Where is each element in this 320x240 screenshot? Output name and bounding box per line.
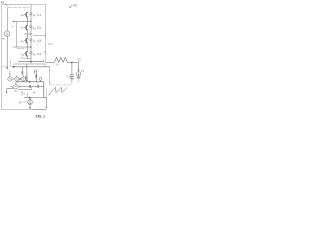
inner box 32 top edge xyxy=(9,6,29,8)
arrowhead on rail (current direction) xyxy=(6,67,8,69)
tiny label above capacitor pair xyxy=(34,68,38,70)
svg-text:4d: 4d xyxy=(33,27,37,31)
wire to ground xyxy=(78,76,80,77)
junction dot capacitor branch xyxy=(71,62,73,64)
cell row 1 : transistor Q1 xyxy=(24,12,28,22)
svg-text:4f: 4f xyxy=(33,40,36,44)
cell row 3 : source wire xyxy=(13,46,31,48)
resistor R (zigzag) xyxy=(54,57,67,62)
current source 34 (circle) xyxy=(4,31,9,36)
svg-text:4h: 4h xyxy=(33,53,37,57)
waveform reference dashed line xyxy=(50,84,71,86)
cell row 3 : mirror node circle xyxy=(30,39,33,42)
bus wire A y=61.7 xyxy=(18,61,44,63)
outer box 30 right edge xyxy=(45,5,47,63)
mirror circle M3 xyxy=(21,77,25,81)
label 30 (outer block reference) xyxy=(0,0,7,6)
waveform tap wire xyxy=(49,67,51,85)
wire M2 to M3 with junction dot xyxy=(19,78,21,80)
cell row 4 : mirror node circle xyxy=(30,52,33,55)
current source 38 (circle with arrow) xyxy=(28,100,33,105)
wire down to capacitor Cp xyxy=(71,62,73,74)
bias transistor Q5 xyxy=(22,67,24,77)
bus A right stub xyxy=(43,60,45,62)
svg-text:4e: 4e xyxy=(21,39,25,43)
svg-text:Cp: Cp xyxy=(67,74,71,78)
wire below + arrowhead to rail xyxy=(29,104,31,107)
junction dot on bias bus xyxy=(29,81,31,83)
inner-left rail (wire) xyxy=(6,9,8,31)
diamond left input stub xyxy=(10,86,12,88)
wire into current source 38 xyxy=(29,98,31,100)
outer box 30 bottom rail xyxy=(2,109,46,111)
pointer arrow 34 xyxy=(2,38,4,39)
output wire after resistor xyxy=(67,61,78,63)
svg-text:C1: C1 xyxy=(37,13,41,17)
right edge wire down + arrow to rail xyxy=(45,98,47,107)
svg-text:C2: C2 xyxy=(37,26,41,30)
tiny tick near Iq xyxy=(24,93,26,95)
row 3/4 link wire xyxy=(17,48,24,50)
feedback wire y=97.6 xyxy=(24,97,46,99)
bus wire B y=64 xyxy=(13,63,46,65)
cell row 4 : transistor Q4 xyxy=(24,47,28,59)
ground under current source xyxy=(76,78,80,83)
junction dot bus/rail xyxy=(30,61,32,63)
mirror circle M2 xyxy=(15,77,19,81)
wire after M3 xyxy=(26,78,27,80)
bias: feed wire into mirror circle M1 xyxy=(9,71,11,77)
input wire corner + arrow xyxy=(6,89,8,92)
node marker near rail xyxy=(12,26,14,28)
outer box 30 top edge xyxy=(2,5,31,6)
main rail x=31 xyxy=(30,5,32,62)
cell row 2 : source wire xyxy=(24,33,31,35)
svg-text:C3: C3 xyxy=(37,39,41,43)
right edge lower segment xyxy=(46,88,48,98)
comparator output wire y=86.4 xyxy=(20,85,29,87)
svg-text:4a: 4a xyxy=(21,13,25,17)
svg-text:38: 38 xyxy=(18,100,22,104)
wire between M1 M2 xyxy=(12,78,15,80)
cell row 2 : mirror node circle xyxy=(30,26,33,29)
mirror circle M1 xyxy=(8,77,12,81)
right vertical feedback wire x=43.8 xyxy=(43,82,45,98)
inner box 32 bottom-left stub xyxy=(10,60,12,67)
svg-text:42: 42 xyxy=(78,58,82,62)
svg-text:4b: 4b xyxy=(33,14,37,18)
svg-text:40: 40 xyxy=(73,4,77,8)
cell row 2 : transistor Q2 xyxy=(24,22,28,35)
Vcc feed wire into box xyxy=(34,35,46,37)
svg-text:Rb: Rb xyxy=(33,91,37,94)
svg-text:Vcc: Vcc xyxy=(48,42,54,46)
wire below current source xyxy=(6,36,8,67)
bus wire C y=66.8 xyxy=(12,66,50,68)
lower bias wire y=89.8 xyxy=(18,89,32,91)
outer box 30 left edge xyxy=(1,6,3,110)
waveform sawtooth xyxy=(50,87,67,92)
lower input wire xyxy=(7,88,14,90)
svg-text:FIG. 1: FIG. 1 xyxy=(36,114,46,118)
small circle device xyxy=(39,77,42,80)
svg-text:44: 44 xyxy=(81,69,85,73)
comparator U1 (diamond) xyxy=(12,84,20,89)
series capacitor Ca xyxy=(28,85,30,88)
svg-text:4c: 4c xyxy=(21,25,25,29)
junction dot on bus C xyxy=(13,66,15,68)
waveform pointer arrow xyxy=(48,94,50,95)
output wire y=62.3 xyxy=(46,61,54,63)
current source I44 (circle with arrow) xyxy=(76,72,81,77)
cell row 1 : source wire xyxy=(13,21,31,23)
wire corner down to current source 44 xyxy=(77,62,79,69)
wire below capacitor xyxy=(71,77,73,79)
capacitor pair C5 C6 xyxy=(34,71,37,74)
capacitor Cp xyxy=(70,74,74,76)
diamond top stub xyxy=(15,82,17,85)
svg-text:30: 30 xyxy=(0,0,4,4)
svg-text:2n: 2n xyxy=(21,56,25,60)
cell row 1 : mirror node circle xyxy=(30,13,33,16)
left link rail x=16.6 xyxy=(16,22,18,48)
svg-text:C4: C4 xyxy=(37,52,41,56)
ground under capacitor xyxy=(70,79,74,84)
bias transistor Q6 xyxy=(26,64,27,80)
junction dot node 44 xyxy=(78,69,80,71)
stubs above feedback wire xyxy=(27,93,29,98)
junction dots on main rail xyxy=(30,21,31,22)
feed stub into M2 xyxy=(16,75,18,77)
series capacitor Cb xyxy=(36,85,38,88)
cell row 3 : transistor Q3 xyxy=(24,34,28,47)
tiny mark below row3 weight label xyxy=(36,43,38,45)
bias transistor Q7 xyxy=(36,74,37,82)
svg-text:Mo: Mo xyxy=(14,90,18,93)
bias bus wire y=81.8 xyxy=(16,81,44,83)
junction dot xyxy=(29,97,31,99)
cell row 4 : source wire xyxy=(24,58,31,60)
